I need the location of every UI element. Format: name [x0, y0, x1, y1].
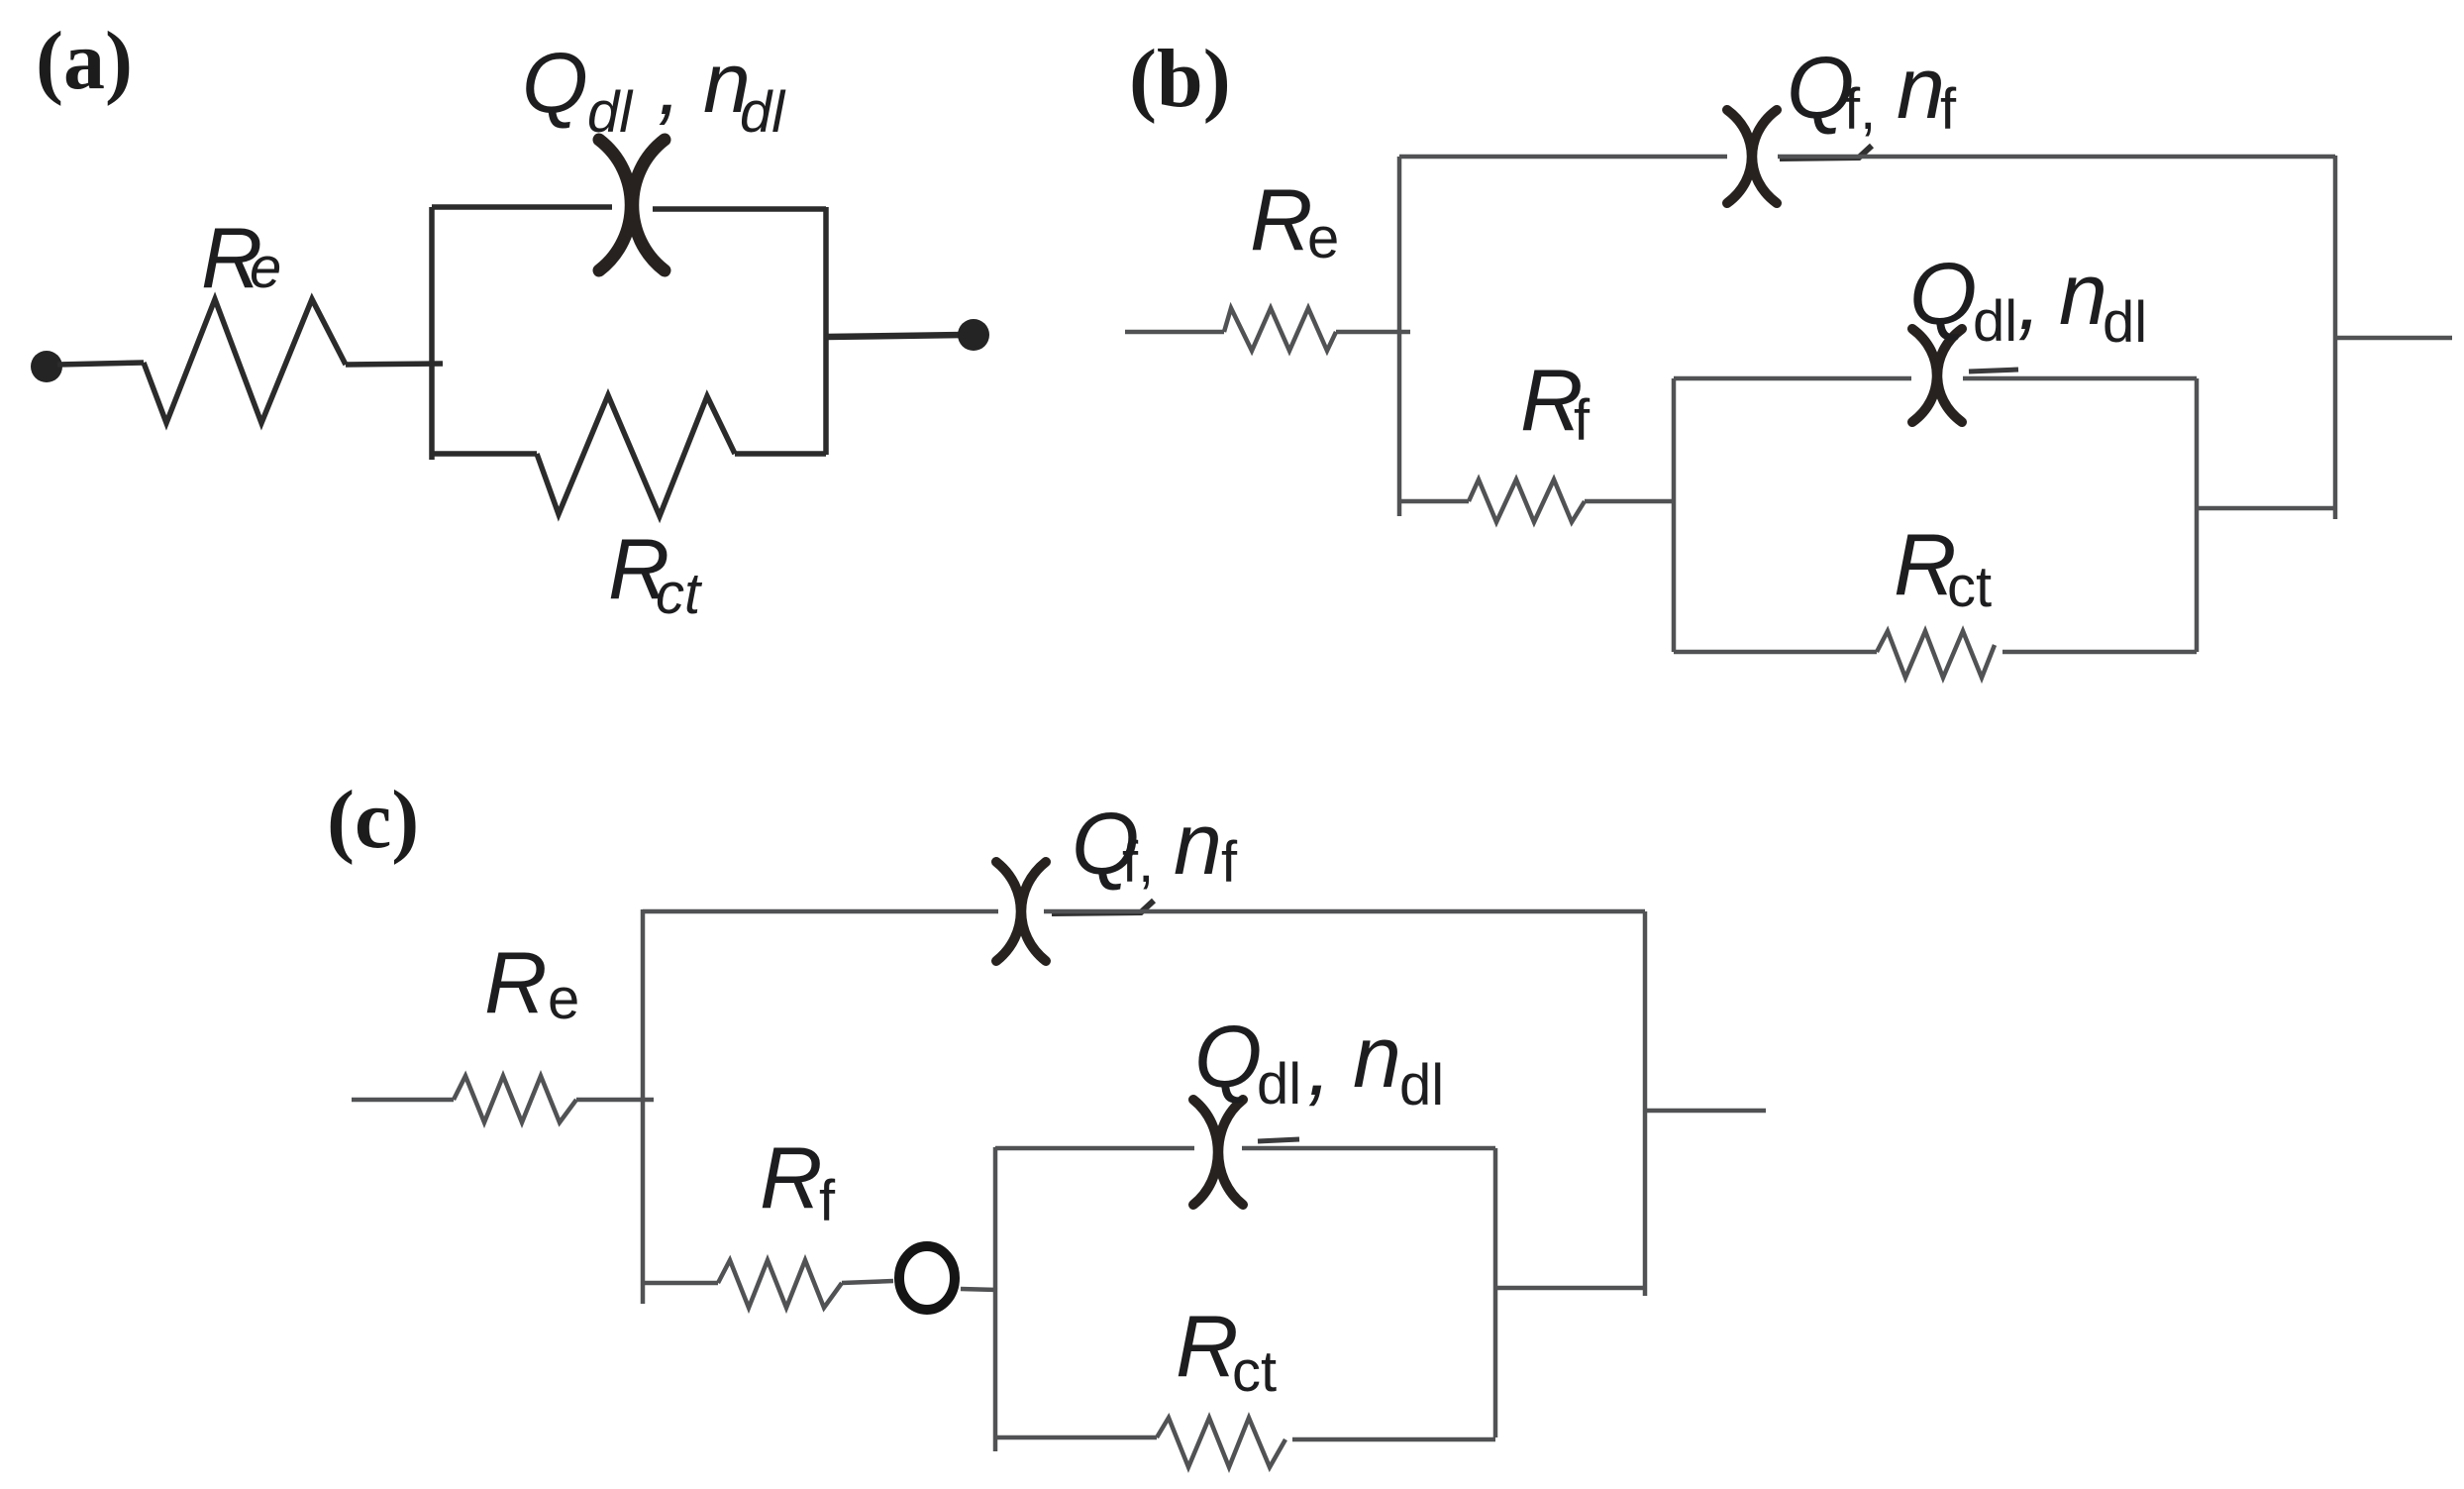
svg-text:dl: dl: [1399, 1053, 1444, 1117]
svg-text:dl: dl: [587, 80, 634, 145]
wire right vertical (b): [2333, 156, 2338, 519]
wire box right vertical (a): [823, 207, 829, 455]
svg-text:R: R: [1176, 1297, 1239, 1395]
wire top right segment (b): [1778, 155, 2335, 160]
wire top right segment (c): [1044, 909, 1645, 914]
wire inner box left vertical (c): [993, 1147, 998, 1451]
wire inner box exit (c): [1495, 1286, 1645, 1291]
wire inner box bottom right segment (c): [1292, 1437, 1495, 1442]
wire overlap artifact (c): [1052, 901, 1154, 913]
resistor Rct (a): [537, 395, 735, 516]
terminal dot right (a): [958, 319, 989, 351]
terminal dot left (a): [31, 351, 62, 382]
svg-text:R: R: [760, 1128, 823, 1226]
capacitor CPE Qdl (b): [1912, 329, 1962, 422]
label Qdl, ndl (b): [1909, 245, 2147, 355]
wire inner box right vertical (c): [1493, 1148, 1498, 1437]
svg-text:,: ,: [658, 38, 681, 133]
wire Rf to node (c): [842, 1281, 893, 1283]
svg-text:dl: dl: [1257, 1052, 1301, 1117]
svg-text:Q: Q: [522, 36, 588, 131]
capacitor CPE Qf (b): [1727, 110, 1777, 203]
svg-text:f: f: [1574, 388, 1591, 453]
wire bottom branch left (b): [1399, 499, 1469, 504]
wire inner box top right segment (b): [1963, 376, 2197, 381]
resistor Re (c): [454, 1076, 576, 1122]
wire inner box right vertical (b): [2195, 378, 2200, 652]
label Rf (c): [760, 1128, 836, 1233]
wire left vertical (b): [1397, 157, 1402, 516]
svg-text:(a): (a): [36, 15, 133, 107]
label (a): [36, 15, 133, 107]
svg-text:,: ,: [2017, 250, 2041, 348]
label Rct (b): [1894, 515, 1992, 619]
svg-text:ct: ct: [1947, 555, 1992, 619]
svg-text:n: n: [1353, 1008, 1401, 1106]
svg-text:e: e: [250, 236, 281, 300]
svg-text:n: n: [1174, 795, 1222, 893]
wire box top right segment (a): [653, 206, 826, 212]
wire top left segment (c): [643, 909, 998, 914]
svg-text:ct: ct: [1232, 1339, 1277, 1404]
wire box left vertical (a): [429, 207, 435, 460]
wire overlap artifact 2 (c): [1258, 1139, 1299, 1141]
svg-text:f: f: [1221, 830, 1238, 895]
svg-text:n: n: [2059, 245, 2107, 343]
wire overlap artifact 2 (b): [1969, 370, 2018, 372]
svg-text:n: n: [1897, 39, 1945, 137]
label Qf, nf (b): [1787, 39, 1957, 142]
wire inner box exit (b): [2197, 506, 2335, 511]
svg-text:R: R: [484, 933, 548, 1031]
svg-text:f: f: [1940, 77, 1957, 142]
wire box bottom left segment (a): [432, 451, 537, 457]
svg-text:f: f: [819, 1169, 836, 1233]
svg-text:ct: ct: [656, 562, 703, 626]
label Re (c): [484, 933, 579, 1031]
resistor Rf (c): [718, 1260, 842, 1308]
wire Re to junction (b): [1336, 330, 1410, 335]
wire top left segment (b): [1399, 155, 1727, 160]
wire inner box top left segment (b): [1674, 376, 1911, 381]
wire Re to box (a): [346, 364, 443, 365]
svg-text:f,: f,: [1122, 830, 1154, 895]
label Qf, nf (c): [1072, 795, 1238, 895]
wire output (a): [826, 335, 963, 337]
capacitor CPE Qf (c): [996, 862, 1046, 961]
wire inner box bottom right segment (b): [2002, 650, 2197, 655]
wire Re to junction (c): [576, 1098, 654, 1103]
wire left vertical (c): [641, 909, 646, 1304]
resistor Re (b): [1224, 308, 1336, 351]
label Qdl , ndl (c): [1194, 1008, 1444, 1117]
label (c): [327, 774, 419, 866]
label Rct (a): [608, 522, 703, 626]
wire input (a): [57, 363, 144, 365]
resistor Rct (c): [1157, 1418, 1285, 1467]
svg-text:dl: dl: [1973, 289, 2017, 354]
svg-text:e: e: [548, 967, 579, 1031]
label Re (a): [201, 211, 281, 306]
wire input (c): [352, 1098, 454, 1103]
svg-text:(c): (c): [327, 774, 419, 866]
wire right vertical (c): [1643, 911, 1648, 1296]
svg-text:dl: dl: [2103, 290, 2147, 355]
wire inner box bottom left segment (b): [1674, 650, 1877, 655]
wire bottom branch left (c): [643, 1281, 718, 1286]
svg-text:Q: Q: [1194, 1008, 1262, 1106]
wire output (c): [1645, 1109, 1766, 1114]
node circle O (c): [899, 1246, 955, 1310]
svg-text:f,: f,: [1844, 77, 1876, 142]
wire Rf to inner box (b): [1585, 499, 1674, 504]
svg-text:dl: dl: [740, 80, 786, 145]
capacitor CPE Qdl (c): [1193, 1100, 1243, 1205]
wire inner box bottom left segment (c): [995, 1436, 1157, 1440]
label Qdl , ndl (a): [522, 36, 786, 145]
wire inner box top left segment (c): [995, 1146, 1194, 1151]
wire box bottom right segment (a): [735, 451, 826, 457]
wire box top left segment (a): [432, 204, 612, 210]
svg-text:(b): (b): [1129, 33, 1231, 125]
wire node to inner box (c): [961, 1289, 997, 1290]
resistor Re (a): [144, 299, 346, 423]
wire overlap artifact (b): [1780, 146, 1872, 159]
wire inner box left vertical (b): [1672, 378, 1677, 652]
svg-text:Q: Q: [1909, 245, 1977, 343]
svg-text:R: R: [1250, 170, 1313, 268]
capacitor CPE Qdl (a): [599, 140, 665, 270]
label Rf (b): [1520, 351, 1591, 453]
svg-text:e: e: [1307, 206, 1339, 270]
label (b): [1129, 33, 1231, 125]
label Re (b): [1250, 170, 1339, 270]
resistor Rf (b): [1469, 479, 1585, 522]
wire input (b): [1125, 330, 1224, 335]
label Rct (c): [1176, 1297, 1277, 1404]
resistor Rct (b): [1877, 631, 1995, 678]
wire inner box top right segment (c): [1242, 1146, 1495, 1151]
svg-text:,: ,: [1307, 1015, 1331, 1114]
wire output (b): [2335, 336, 2452, 341]
